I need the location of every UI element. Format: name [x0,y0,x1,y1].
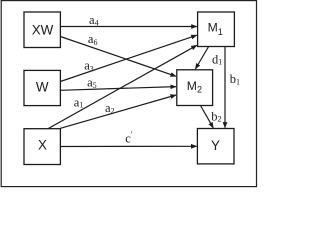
wire b1 M1 to Y [224,47,226,128]
wire a4 XW to M1 [60,26,196,28]
wire a6 XW to M2 [60,37,176,77]
wire c' X to Y [60,145,196,147]
box M1 [198,12,235,47]
box W [24,70,60,105]
box Y [197,129,234,164]
box XW [24,12,60,48]
wire a1 X to M1 [48,45,197,128]
svg-text:Y: Y [211,138,220,153]
svg-text:X: X [38,138,47,153]
svg-text:W: W [36,80,49,95]
wire a2 X to M2 [60,95,176,128]
wire b2 M2 to Y [201,106,214,128]
wire d1 M1 to M2 [195,47,208,70]
box M2 [177,70,213,106]
svg-text:XW: XW [32,22,54,37]
box X [24,129,60,165]
wire a3 W to M1 [60,35,196,81]
wire a5 W to M2 [60,87,176,91]
